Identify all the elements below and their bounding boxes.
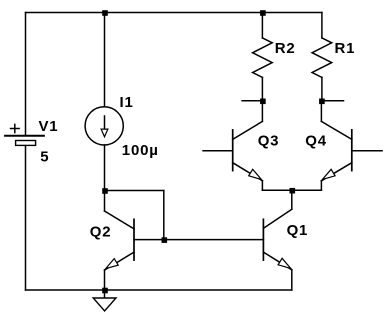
resistor R2	[253, 13, 273, 101]
wire R1 bottom stub right	[321, 100, 343, 102]
junction node emitter tail	[290, 188, 296, 194]
transistor Q1	[263, 209, 291, 290]
junction node R2/Q3	[260, 99, 266, 105]
wire tail down to Q1 collector	[291, 190, 293, 209]
svg-text:V1: V1	[39, 118, 59, 135]
junction node top-left	[102, 10, 108, 16]
wire R2 bottom stub left	[242, 100, 262, 102]
resistor R1	[312, 13, 332, 101]
junction node base rail	[162, 237, 168, 243]
svg-text:Q4: Q4	[305, 133, 327, 150]
ground	[93, 290, 116, 311]
junction node R1/Q4	[319, 99, 325, 105]
svg-text:Q1: Q1	[287, 222, 309, 239]
svg-text:R2: R2	[275, 40, 296, 57]
wire I1 branch top	[104, 13, 106, 107]
wire node to collector-base tie horizontal	[105, 190, 164, 192]
junction node top R2	[260, 10, 266, 16]
svg-text:Q2: Q2	[90, 223, 112, 240]
transistor Q3	[203, 101, 262, 190]
junction node I1/Q2	[102, 188, 108, 194]
svg-text:100µ: 100µ	[122, 142, 159, 159]
wire I1 bottom to node	[104, 145, 106, 191]
wire left vertical V1 bottom to ground rail	[25, 145, 27, 290]
current source I1	[85, 107, 123, 145]
svg-text:R1: R1	[335, 40, 356, 57]
transistor Q2	[105, 191, 135, 291]
wire collector-base tie vertical	[163, 191, 165, 240]
wire emitter tail rail	[262, 189, 321, 191]
wire top rail	[26, 12, 322, 14]
wire bottom ground rail	[26, 289, 292, 291]
junction node ground	[102, 288, 108, 294]
svg-text:Q3: Q3	[258, 133, 280, 150]
wire left vertical to V1 top	[25, 13, 27, 136]
svg-text:I1: I1	[120, 94, 134, 111]
svg-text:5: 5	[40, 149, 49, 166]
transistor Q4	[321, 101, 382, 190]
wire base rail Q2 to Q1	[134, 239, 263, 241]
voltage source V1	[5, 124, 44, 145]
